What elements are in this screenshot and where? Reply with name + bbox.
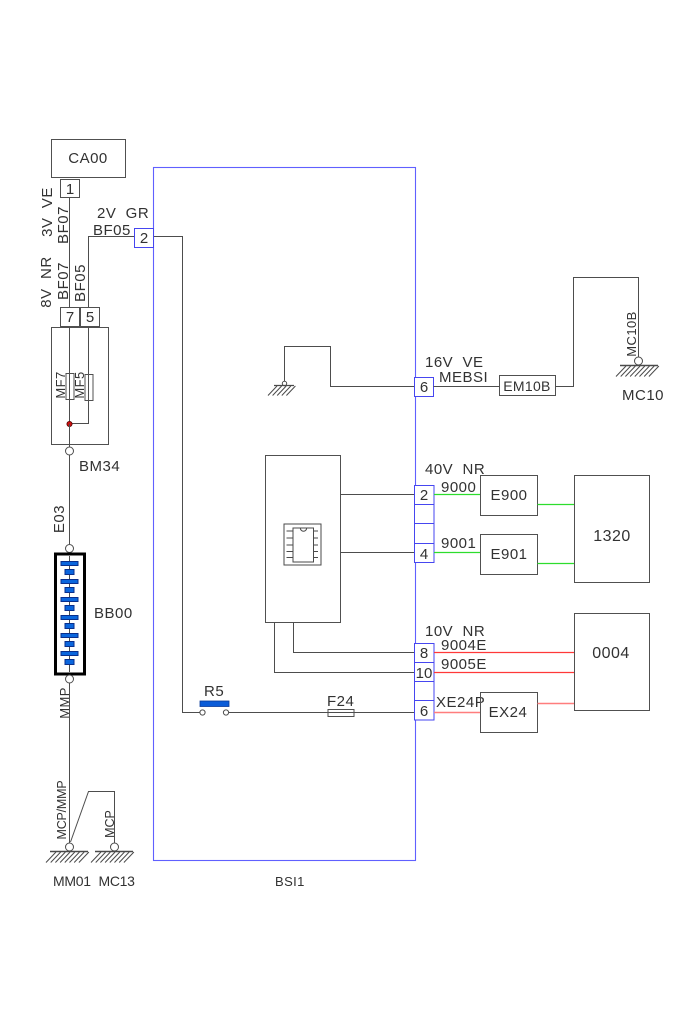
box 1320 xyxy=(575,476,650,583)
svg-text:6: 6 xyxy=(420,703,428,720)
svg-text:BF07: BF07 xyxy=(55,262,72,300)
svg-text:1320: 1320 xyxy=(593,528,631,545)
fuse housing box xyxy=(52,328,109,445)
svg-text:9005E: 9005E xyxy=(441,656,487,673)
relay contact R5 xyxy=(200,683,229,715)
box CA00 xyxy=(52,140,126,178)
wire 9001 (green) xyxy=(434,535,480,553)
wire junction to node BM34 xyxy=(69,424,71,447)
pin 6 MEBSI of BSI1 xyxy=(415,378,434,397)
pin 7 of MF xyxy=(61,308,80,327)
wire module to pin 10 xyxy=(275,622,416,673)
svg-text:MM01: MM01 xyxy=(53,873,91,889)
node below battery xyxy=(66,675,74,683)
svg-text:3V VE: 3V VE xyxy=(39,187,56,237)
svg-text:10: 10 xyxy=(416,665,433,682)
svg-text:9000: 9000 xyxy=(441,479,476,496)
svg-text:8: 8 xyxy=(420,645,428,662)
battery BB00 xyxy=(56,554,133,674)
svg-text:9004E: 9004E xyxy=(441,637,487,654)
svg-text:MF7: MF7 xyxy=(53,371,68,398)
wire EX24 to 0004 (red) xyxy=(538,703,575,705)
wire EM10B to ground MC10 xyxy=(556,278,639,387)
svg-text:EM10B: EM10B xyxy=(503,378,550,394)
svg-text:2V GR: 2V GR xyxy=(97,205,149,222)
svg-text:XE24P: XE24P xyxy=(436,694,485,711)
svg-text:9001: 9001 xyxy=(441,535,476,552)
svg-text:CA00: CA00 xyxy=(68,150,108,167)
svg-text:R5: R5 xyxy=(204,683,224,700)
svg-text:E03: E03 xyxy=(51,505,68,533)
svg-text:MCP: MCP xyxy=(103,810,117,838)
svg-text:2: 2 xyxy=(140,230,148,247)
svg-text:4: 4 xyxy=(420,546,428,563)
wire E03 (BM34 down to battery) xyxy=(69,455,71,544)
svg-text:BF07: BF07 xyxy=(55,206,72,244)
wire MCP branch to MC13 xyxy=(71,792,115,844)
fuse MF7 xyxy=(66,374,74,400)
svg-text:MC10B: MC10B xyxy=(624,311,639,356)
svg-text:BF05: BF05 xyxy=(72,264,89,302)
wire BF07 (CA00 pin1 down to MF pin7) xyxy=(69,198,71,307)
svg-text:E900: E900 xyxy=(490,487,527,504)
BSI1 box xyxy=(154,168,416,890)
svg-text:MC10: MC10 xyxy=(622,387,664,404)
wire 9005E (red) xyxy=(434,656,574,673)
box 0004 xyxy=(575,614,650,711)
svg-text:BSI1: BSI1 xyxy=(275,874,305,889)
svg-text:0004: 0004 xyxy=(592,645,630,662)
svg-text:E901: E901 xyxy=(490,546,527,563)
svg-text:F24: F24 xyxy=(327,693,354,710)
box EM10B xyxy=(500,376,556,396)
pin 2 of BSI1 (top left) xyxy=(135,229,154,248)
connector strip pins 2/4 (right edge top) xyxy=(415,486,435,564)
pin 1 of CA00 xyxy=(61,180,80,199)
junction dot xyxy=(67,421,72,426)
wire from pin 2 into BSI down to R5 xyxy=(154,237,200,713)
wire pin7 through fuse MF7 to junction xyxy=(69,327,71,424)
wire E901 to 1320 (green) xyxy=(538,563,575,565)
wire internal ground to pin 6 MEBSI xyxy=(285,347,416,387)
wire module to pin 8 xyxy=(294,622,416,653)
svg-text:MMP: MMP xyxy=(57,687,72,719)
wire R5 to F24 to pin 6 xyxy=(229,712,415,714)
wire BF05 (BSI pin2 left and down to MF pin5) xyxy=(89,237,135,308)
pin 5 of MF xyxy=(81,308,100,327)
svg-text:MCP/MMP: MCP/MMP xyxy=(55,780,69,839)
wire MEBSI to EM10B xyxy=(434,386,500,388)
svg-text:BM34: BM34 xyxy=(79,458,120,475)
node above battery xyxy=(66,545,74,553)
ground MC13 xyxy=(91,843,134,863)
svg-text:7: 7 xyxy=(66,309,74,326)
wire 9000 (green) xyxy=(434,479,480,496)
ground MM01 xyxy=(46,843,89,863)
svg-text:5: 5 xyxy=(86,309,94,326)
fuse MF5 xyxy=(85,375,93,401)
svg-text:40V NR: 40V NR xyxy=(425,461,485,478)
svg-text:BB00: BB00 xyxy=(94,605,133,622)
wire module to pin 2 xyxy=(341,494,416,496)
ground MC10 xyxy=(616,357,659,377)
box E901 xyxy=(481,535,538,575)
svg-text:MEBSI: MEBSI xyxy=(439,369,488,386)
internal module box of BSI1 xyxy=(266,456,341,623)
connector strip pins 8/10/6 (right edge bottom) xyxy=(415,644,435,721)
fuse F24 xyxy=(327,693,354,717)
box EX24 xyxy=(481,693,538,733)
svg-text:EX24: EX24 xyxy=(489,704,528,721)
box E900 xyxy=(481,476,538,516)
svg-text:1: 1 xyxy=(66,181,74,198)
svg-text:8V NR: 8V NR xyxy=(38,256,55,307)
node BM34 xyxy=(66,447,121,475)
wire XE24P (red) xyxy=(434,694,485,713)
IC U1 symbol xyxy=(284,524,321,565)
internal ground of BSI1 xyxy=(268,381,295,395)
wire E900 to 1320 (green) xyxy=(538,504,575,506)
wire pin5 through fuse MF5 to junction xyxy=(70,327,89,424)
wire MMP (battery to ground MM01) xyxy=(69,683,71,843)
svg-text:MC13: MC13 xyxy=(99,873,136,889)
wire 9004E (red) xyxy=(434,637,574,654)
svg-text:2: 2 xyxy=(420,487,428,504)
wire module to pin 4 xyxy=(341,552,416,554)
svg-text:6: 6 xyxy=(420,379,428,396)
svg-text:MF5: MF5 xyxy=(72,371,87,398)
